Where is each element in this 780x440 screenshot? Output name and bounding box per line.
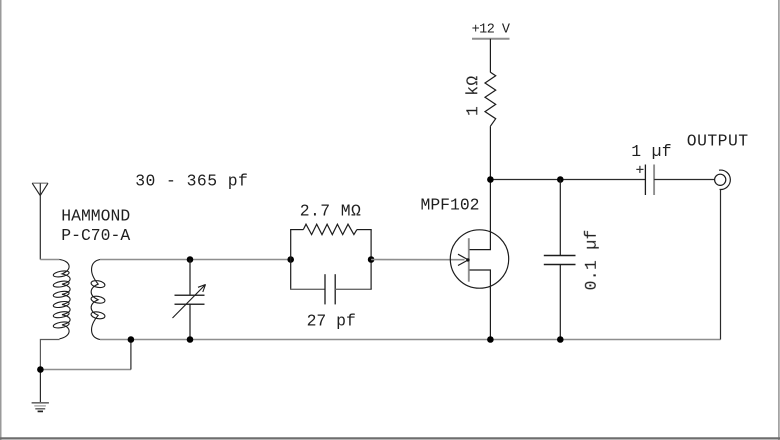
transformer T1 secondary winding: [91, 260, 106, 340]
node variable capacitor bottom: [187, 336, 194, 343]
wire RC right riser down: [370, 260, 372, 290]
capacitor C4 1 uf plates: [644, 165, 646, 196]
wire 0.1uf top lead: [559, 180, 561, 256]
wire var cap top lead: [189, 260, 191, 296]
node ground T junction: [37, 366, 44, 373]
wire resistor R2 right lead: [357, 229, 372, 231]
svg-text:1 µf: 1 µf: [631, 142, 672, 161]
node 0.1uf top: [557, 176, 564, 183]
frame right edge: [778, 0, 780, 440]
wire 0.1uf bottom lead: [559, 265, 561, 340]
capacitor C3 0.1 uf plates: [544, 255, 576, 257]
node 0.1uf bottom: [557, 336, 564, 343]
svg-text:30 - 365 pf: 30 - 365 pf: [135, 172, 248, 191]
wire RC left riser down: [290, 260, 292, 290]
wire capacitor C2 left lead: [290, 288, 325, 290]
drain rail wire: [490, 179, 645, 181]
wire antenna to transformer primary: [40, 259, 59, 261]
wire from +12V bar to resistor R1: [489, 39, 491, 73]
variable capacitor arrow: [173, 285, 206, 319]
capacitor C4 1 uf polarity plus: [636, 166, 643, 173]
node RC network left: [287, 256, 294, 263]
resistor R2 2.7 MOhm (horizontal zigzag): [303, 224, 357, 234]
wire RC right riser up: [370, 230, 372, 260]
svg-text:+12 V: +12 V: [472, 23, 511, 38]
wire drain node to JFET: [489, 180, 491, 233]
wire ground run to secondary return: [40, 369, 130, 371]
frame left edge: [0, 0, 2, 440]
JFET drain lead: [470, 231, 491, 250]
svg-text:OUTPUT: OUTPUT: [687, 131, 749, 150]
wire 1uf right to output jack: [654, 179, 715, 181]
wire resistor R1 to drain node: [489, 126, 491, 179]
node variable capacitor top: [187, 256, 194, 263]
gate rail wire (secondary top to RC network): [100, 259, 291, 261]
antenna symbol: [32, 183, 48, 259]
svg-text:2.7 MΩ: 2.7 MΩ: [300, 202, 361, 221]
svg-text:0.1 µf: 0.1 µf: [582, 229, 601, 290]
capacitor C2 27 pf plates: [324, 274, 326, 304]
wire output jack shield down: [720, 189, 722, 339]
wire RC left riser up: [290, 230, 292, 260]
transformer T1 primary winding: [53, 260, 70, 339]
wire JFET source to bottom rail: [489, 287, 491, 340]
resistor R1 1 kOhm (vertical zigzag): [485, 72, 496, 126]
wire secondary return riser: [130, 340, 132, 370]
JFET gate arrow: [458, 254, 468, 260]
transistor Q1 MPF102 (JFET): [450, 230, 508, 289]
wire ground vertical below node: [39, 370, 41, 403]
node RC network right: [368, 256, 375, 263]
node source on bottom rail: [487, 336, 494, 343]
bottom rail wire: [100, 339, 721, 341]
svg-text:P-C70-A: P-C70-A: [61, 226, 130, 245]
output jack J1: [715, 170, 731, 189]
svg-text:27 pf: 27 pf: [307, 311, 356, 330]
svg-text:1 kΩ: 1 kΩ: [463, 75, 482, 116]
JFET body circle: [450, 230, 508, 288]
ground symbol: [32, 403, 49, 412]
wire resistor R2 left lead: [290, 229, 303, 231]
node drain: [487, 176, 494, 183]
wire transformer primary bottom to ground: [40, 340, 59, 370]
svg-text:HAMMOND: HAMMOND: [61, 207, 130, 226]
wire gate rail RC to JFET: [371, 259, 464, 261]
frame bottom edge: [0, 437, 780, 439]
node secondary return on bottom rail: [128, 336, 135, 343]
JFET channel bar: [468, 238, 470, 282]
wire var cap bottom lead: [189, 304, 191, 339]
variable capacitor C1 plates: [175, 294, 205, 296]
power rail bar +12V: [472, 38, 510, 40]
JFET source lead: [470, 270, 491, 289]
svg-text:MPF102: MPF102: [421, 196, 480, 215]
wire capacitor C2 right lead: [335, 288, 372, 290]
